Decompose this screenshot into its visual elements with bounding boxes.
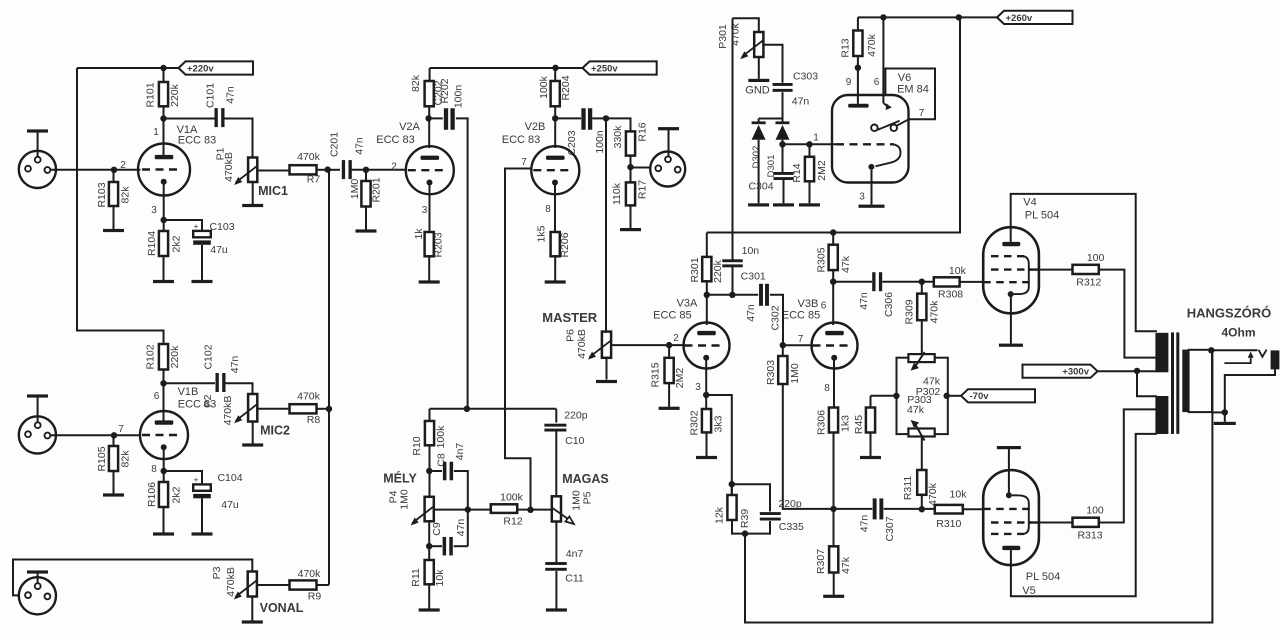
wire V3B plate lead (832, 282, 834, 325)
ground V6 cathode (859, 205, 885, 208)
triode V2B ECC 83 (531, 146, 579, 194)
svg-text:R303: R303 (765, 360, 777, 385)
svg-text:ECC 83: ECC 83 (178, 135, 217, 147)
svg-text:+260v: +260v (1006, 13, 1033, 24)
svg-text:R104: R104 (146, 231, 158, 256)
capacitor C104 47u electrolytic (193, 484, 211, 490)
wire P301 top feed (733, 18, 759, 32)
resistor R101 220k (163, 68, 165, 82)
wire pin 6 from rail (882, 17, 884, 103)
speaker terminal block (1271, 350, 1280, 369)
wire P6 wiper to V3A grid (611, 344, 684, 346)
ground below R206 (554, 256, 556, 280)
svg-text:2k2: 2k2 (170, 486, 182, 503)
svg-text:R307: R307 (815, 549, 827, 574)
wire C102 to P2 top (226, 383, 253, 394)
svg-text:ECC 85: ECC 85 (653, 310, 692, 322)
svg-text:470k: 470k (928, 300, 940, 324)
capacitor C103 47u electrolytic (193, 231, 211, 237)
wire V3A plate lead (706, 295, 708, 325)
wire rail to +250v flag (556, 67, 583, 69)
svg-text:R101: R101 (144, 82, 156, 107)
capacitor C8 4n7 (430, 470, 443, 472)
capacitor C102 47n (164, 382, 216, 384)
ground below R103 (113, 206, 115, 229)
wire +250v rail (430, 67, 556, 69)
svg-text:ECC 83: ECC 83 (376, 134, 415, 146)
svg-text:V3A: V3A (677, 298, 698, 310)
svg-text:47u: 47u (221, 499, 239, 511)
svg-text:47u: 47u (210, 244, 228, 256)
svg-text:100k: 100k (500, 492, 524, 504)
svg-text:C201: C201 (328, 132, 340, 157)
svg-text:100: 100 (1086, 505, 1104, 517)
svg-text:12k: 12k (714, 506, 726, 524)
wire trimmer bottom to R311 (921, 436, 923, 470)
resistor R204 100k (554, 68, 556, 81)
wire P4 bottom to C9 node (428, 521, 430, 546)
svg-text:R39: R39 (739, 509, 751, 528)
wire P5 bottom to C11 (555, 522, 557, 563)
wire V4 cathode to ground (1010, 294, 1012, 343)
svg-text:V1B: V1B (178, 386, 199, 398)
svg-text:MAGAS: MAGAS (562, 472, 609, 486)
svg-text:220p: 220p (564, 410, 588, 422)
wire box left to R45 (871, 395, 897, 397)
svg-text:+: + (194, 221, 199, 231)
svg-text:47k: 47k (840, 255, 852, 273)
node mixing bus input (325, 166, 331, 172)
svg-text:R103: R103 (96, 182, 108, 207)
svg-text:ECC 85: ECC 85 (782, 310, 821, 322)
transformer core (1171, 332, 1174, 434)
wire XLR1 to V1A grid (50, 169, 140, 171)
resistor R306 1k3 (829, 408, 838, 433)
wire P2 wiper to R8 (257, 408, 289, 410)
node grid junction R105 (111, 432, 117, 438)
svg-text:R45: R45 (853, 415, 865, 434)
V6 cathode (868, 164, 874, 170)
svg-text:1: 1 (153, 127, 159, 138)
wire R13 to V6 pin 9 (857, 56, 859, 104)
svg-text:1M0: 1M0 (399, 489, 411, 510)
svg-text:2: 2 (673, 333, 679, 344)
wire driver line to C307 (833, 508, 873, 510)
svg-text:C303: C303 (793, 71, 818, 83)
power flag +260v (997, 11, 1073, 24)
node secondary output junction (1208, 347, 1214, 353)
svg-text:C301: C301 (741, 271, 766, 283)
svg-text:R301: R301 (689, 257, 701, 282)
wire V2A plate lead (428, 118, 430, 148)
svg-text:R12: R12 (503, 516, 522, 528)
node C301 junction (729, 292, 735, 298)
resistor R8 470k (290, 404, 317, 413)
svg-text:8: 8 (151, 464, 157, 475)
svg-text:10k: 10k (434, 569, 446, 587)
node R14 junction (806, 141, 812, 147)
diode D301 (752, 121, 766, 124)
wire V4 plate to transformer top (1011, 194, 1157, 331)
pin 6 electrode hook (883, 103, 888, 108)
wire R305 to V3B plate node (832, 270, 834, 282)
node trimmer box right (944, 393, 950, 399)
svg-text:2: 2 (391, 162, 397, 173)
wire P3 wiper to R9 (257, 584, 290, 586)
wire C307 to R310 (884, 508, 935, 510)
svg-text:R8: R8 (307, 414, 321, 426)
wire C10 to P5 top (555, 431, 557, 496)
potentiometer P1 470kB MIC1 volume (248, 158, 257, 183)
resistor R16 330k (626, 131, 635, 155)
pentode V4 PL504 (983, 227, 1039, 313)
svg-text:1M0: 1M0 (789, 363, 801, 384)
svg-text:3k3: 3k3 (713, 415, 725, 432)
node bus R8 junction (326, 406, 332, 412)
magic eye tube V6 EM 84 (832, 95, 909, 183)
ground below R104 (163, 256, 165, 280)
node R12/P5 junction (527, 507, 533, 513)
triode V3A ECC 85 (684, 323, 730, 369)
capacitor C202 100n (429, 117, 443, 119)
wire V1B cathode (163, 447, 165, 471)
svg-text:C306: C306 (883, 292, 895, 317)
svg-text:100n: 100n (594, 130, 606, 154)
wire +260v top rail (858, 16, 997, 18)
svg-text:6: 6 (821, 301, 827, 312)
ground below R11 (428, 584, 430, 608)
connector XLR MIC1 input (19, 151, 56, 188)
wire V1A cathode (163, 182, 165, 220)
potentiometer P5 1M0 treble MAGAS (552, 496, 561, 521)
svg-text:470kB: 470kB (223, 152, 235, 182)
wire R10 to P4 top node (429, 445, 431, 497)
svg-text:1k3: 1k3 (840, 415, 852, 432)
svg-text:P5: P5 (581, 491, 593, 504)
svg-text:P6: P6 (565, 329, 577, 342)
power flag -70v (961, 389, 1035, 402)
capacitor C9 47n (429, 545, 442, 547)
svg-text:C335: C335 (779, 521, 804, 533)
capacitor C302 47n (759, 284, 763, 306)
node feedback top junction (729, 481, 735, 487)
wire V1A plate lead (163, 119, 165, 159)
svg-text:47k: 47k (907, 404, 925, 416)
svg-text:R201: R201 (371, 177, 383, 202)
svg-text:1M0: 1M0 (349, 179, 361, 200)
resistor R201 1M0 (365, 170, 367, 181)
svg-text:PL 504: PL 504 (1025, 210, 1059, 222)
node R309 junction (919, 279, 925, 285)
node R10/C8/P4 junction (426, 468, 432, 474)
feedback network wire (732, 484, 770, 511)
svg-text:2M2: 2M2 (674, 368, 686, 389)
resistor R312 100 (1073, 265, 1099, 274)
svg-text:470kB: 470kB (222, 396, 234, 426)
node V1A plate junction (160, 115, 166, 121)
svg-text:82k: 82k (410, 74, 422, 92)
svg-text:330k: 330k (612, 125, 624, 149)
wire cathode to C103 (164, 220, 202, 233)
wire C301 top to EM84 network (732, 18, 734, 260)
svg-text:V4: V4 (1023, 197, 1036, 209)
node V2B plate junction (552, 115, 558, 121)
capacitor C335 220p (760, 512, 781, 515)
node +260v rail junction (956, 14, 962, 20)
wire P1 wiper to R7 (257, 170, 289, 172)
wire R303 down to driver line (783, 384, 833, 509)
svg-text:R206: R206 (559, 232, 571, 257)
svg-text:V2A: V2A (399, 121, 420, 133)
svg-text:+220v: +220v (187, 63, 214, 74)
svg-text:47n: 47n (792, 96, 810, 108)
ground below R201 (365, 207, 367, 230)
svg-text:2k2: 2k2 (170, 235, 182, 252)
wire XLR3 to P3 (13, 560, 252, 596)
svg-text:C102: C102 (203, 344, 215, 369)
node V3B plate junction (830, 279, 836, 285)
node R16/R17 junction (630, 156, 632, 183)
transformer secondary body box (1189, 350, 1212, 412)
svg-text:6: 6 (154, 391, 160, 402)
node pin 9 (855, 65, 861, 71)
wire B+ rail for phase splitter (707, 17, 960, 232)
potentiometer P3 470kB VONAL volume (248, 572, 257, 597)
wire P301 wiper to C303 (763, 45, 782, 83)
wire +220v rail from V1A plate supply (77, 67, 164, 69)
svg-text:R308: R308 (938, 289, 963, 301)
resistor R311 470k (917, 470, 926, 495)
svg-text:C302: C302 (769, 305, 781, 330)
svg-text:ECC 83: ECC 83 (502, 134, 541, 146)
wire secondary bottom edge (1212, 411, 1225, 413)
svg-text:R7: R7 (307, 174, 321, 186)
capacitor C303 47n (773, 83, 793, 86)
resistor R13 470k (853, 31, 862, 57)
wire V5 cathode to ground above (1008, 449, 1010, 495)
svg-text:100k: 100k (435, 425, 447, 449)
svg-text:110k: 110k (611, 182, 623, 205)
ground below C304 (783, 180, 785, 203)
wire R301 to V3A plate node (706, 281, 708, 295)
node tone output junction (465, 506, 471, 512)
ground below R203 (428, 256, 430, 280)
ground V4 cathode (999, 344, 1023, 347)
svg-text:P301: P301 (717, 24, 729, 49)
svg-text:V6: V6 (898, 72, 911, 84)
svg-text:R313: R313 (1077, 530, 1102, 542)
svg-text:2: 2 (120, 160, 126, 171)
speaker check mark (1259, 350, 1267, 357)
power flag +220v (179, 61, 254, 74)
wire R204 to V2B plate node (554, 106, 556, 118)
svg-text:+300v: +300v (1062, 367, 1089, 378)
svg-text:82k: 82k (120, 186, 132, 204)
svg-text:220k: 220k (712, 259, 724, 283)
svg-text:R11: R11 (410, 568, 422, 587)
resistor R106 2k2 (163, 471, 165, 482)
svg-text:470k: 470k (297, 391, 321, 403)
resistor R11 10k (428, 546, 430, 560)
node V1B plate junction (160, 380, 166, 386)
svg-text:10n: 10n (742, 245, 760, 257)
wire V5 screen to R313 (1039, 522, 1073, 524)
svg-text:3: 3 (695, 382, 701, 393)
svg-text:R204: R204 (560, 75, 572, 100)
svg-text:D302: D302 (751, 146, 762, 169)
svg-text:7: 7 (521, 157, 527, 168)
svg-text:R203: R203 (433, 232, 445, 257)
svg-text:R102: R102 (144, 344, 156, 369)
svg-text:470k: 470k (297, 151, 321, 163)
svg-text:C304: C304 (748, 181, 773, 193)
wire speaker return (1225, 369, 1275, 412)
svg-text:-70v: -70v (970, 391, 990, 402)
svg-text:220k: 220k (169, 83, 181, 107)
trimmer P303 47k (908, 429, 934, 437)
resistor R45 47k (870, 396, 872, 408)
svg-text:HANGSZÓRÓ: HANGSZÓRÓ (1187, 306, 1272, 321)
svg-text:47n: 47n (745, 304, 757, 322)
svg-text:82k: 82k (120, 450, 132, 468)
ground below R315 (668, 383, 670, 407)
svg-text:47k: 47k (840, 556, 852, 574)
ground below D301 (758, 140, 760, 204)
capacitor C304 47n (782, 144, 784, 172)
resistor R39 12k (727, 495, 736, 520)
wire box right to -70v flag (947, 395, 961, 397)
node V3A grid junction (666, 342, 672, 348)
node speaker ground junction (1222, 409, 1228, 415)
capacitor C101 47n (164, 118, 215, 120)
wire feedback to speaker line (745, 350, 1212, 622)
svg-text:R312: R312 (1076, 277, 1101, 289)
svg-text:4Ohm: 4Ohm (1221, 326, 1255, 340)
svg-text:P4: P4 (388, 490, 400, 503)
wire V4 screen to R312 (1039, 269, 1073, 271)
svg-text:MIC2: MIC2 (260, 424, 290, 438)
transformer secondary winding (1182, 350, 1188, 413)
transformer primary lower winding (1155, 396, 1168, 434)
node cathode junction V1B (161, 468, 167, 474)
resistor R102 220k (159, 344, 168, 370)
ground below P2 (252, 422, 254, 444)
ground below C104 (201, 498, 203, 532)
svg-text:R14: R14 (791, 163, 803, 182)
wire C101 to P1 top (225, 119, 253, 158)
wire R102 to V1B plate node (163, 370, 165, 384)
wire cathode to feedback network R39 (706, 395, 732, 495)
ground for XLR mic input 2 (27, 394, 48, 397)
svg-text:1k5: 1k5 (536, 225, 548, 242)
capacitor C306 47n (833, 281, 872, 283)
wire C9 right to tone node vertical (454, 545, 468, 547)
wire plate node to C302 (707, 294, 758, 296)
svg-text:GND: GND (745, 85, 770, 97)
svg-text:8: 8 (545, 204, 551, 215)
svg-text:47n: 47n (229, 356, 241, 374)
svg-text:2M2: 2M2 (816, 160, 828, 181)
wire mixing bus vertical (328, 170, 330, 585)
wire V3A cathode (705, 358, 707, 395)
pentode V5 PL504 (983, 470, 1039, 565)
ground below R105 (113, 471, 115, 494)
wire R13 rail (857, 17, 859, 30)
resistor R14 2M2 (809, 144, 811, 157)
svg-text:P3: P3 (211, 566, 223, 579)
wire R12 to P5 (517, 509, 551, 511)
ground for XLR mic input 1 (27, 129, 48, 132)
svg-text:R302: R302 (689, 410, 701, 435)
svg-text:R105: R105 (96, 446, 108, 471)
wire V1B plate lead (163, 383, 165, 424)
resistor R7 470k (290, 165, 317, 174)
wire R312 to transformer tap (1099, 270, 1157, 358)
svg-text:47n: 47n (455, 519, 467, 537)
wire XLR2 to V1B grid (50, 434, 140, 436)
svg-text:3: 3 (859, 192, 865, 203)
resistor R313 100 (1073, 518, 1099, 527)
potentiometer P6 470kB MASTER volume (602, 332, 611, 358)
svg-text:C9: C9 (431, 522, 443, 536)
svg-text:R306: R306 (815, 410, 827, 435)
wire R101 to V1A plate node (163, 106, 165, 118)
resistor R206 1k5 (551, 232, 560, 256)
ground below P6 (606, 358, 608, 380)
svg-text:10k: 10k (950, 489, 968, 501)
wire C335 bottom / R39 bottom (732, 520, 770, 534)
svg-text:9: 9 (846, 77, 852, 88)
resistor R202 82k (429, 68, 431, 81)
resistor R9 470k (290, 580, 317, 589)
capacitor C11 4n7 (545, 562, 567, 565)
svg-text:470k: 470k (298, 568, 322, 580)
wire C203 to line out divider (592, 117, 606, 119)
wire center tap lower connection (1137, 371, 1157, 396)
capacitor C201 47n (329, 169, 340, 171)
wire C202 down to tone stack bus (456, 118, 468, 408)
wire +220v rail to flag (164, 67, 179, 69)
V6 deflection electrodes (871, 125, 878, 132)
wire V2B grid to MAGAS wiper (505, 169, 531, 510)
svg-text:MIC1: MIC1 (258, 184, 288, 198)
ground below R106 (163, 507, 165, 533)
resistor R17 110k (626, 182, 635, 205)
svg-text:+: + (194, 475, 199, 485)
node cathode junction (161, 217, 167, 223)
resistor R10 100k (429, 409, 431, 421)
svg-text:47n: 47n (225, 86, 237, 104)
svg-text:R315: R315 (650, 362, 662, 387)
svg-text:470k: 470k (927, 482, 939, 506)
svg-text:8: 8 (824, 383, 830, 394)
ground speaker return (1224, 412, 1226, 421)
resistor R12 100k (468, 509, 491, 511)
ground below P1 (252, 182, 254, 204)
ground below R307 (833, 573, 835, 595)
speaker tap arrow (1248, 352, 1254, 358)
wire +220v rail down to V1B stage (77, 68, 164, 344)
wire secondary to speaker plus (1211, 349, 1257, 351)
wire grid junction into V3B (783, 344, 812, 346)
wire V2B plate lead (554, 118, 556, 148)
wire junction to XLR4 (631, 167, 651, 169)
resistor R301 220k (706, 233, 708, 257)
svg-text:R9: R9 (308, 591, 322, 603)
svg-text:470kB: 470kB (225, 567, 237, 597)
resistor R105 82k (113, 435, 115, 446)
wire cathode to C104 (164, 471, 202, 486)
